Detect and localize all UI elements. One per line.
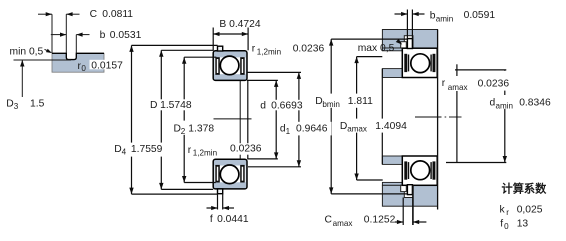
svg-text:1.811: 1.811 — [348, 96, 373, 107]
svg-text:0.1252: 0.1252 — [364, 215, 396, 226]
svg-text:0.0441: 0.0441 — [217, 214, 249, 225]
svg-text:C: C — [325, 214, 333, 225]
svg-text:f: f — [210, 214, 213, 225]
svg-text:0,025: 0,025 — [517, 205, 543, 216]
svg-text:0.0531: 0.0531 — [110, 30, 142, 41]
svg-text:1.378: 1.378 — [188, 123, 214, 134]
svg-text:0.0236: 0.0236 — [478, 78, 510, 89]
svg-text:1: 1 — [286, 127, 291, 136]
svg-text:b: b — [100, 30, 106, 41]
svg-text:0.9646: 0.9646 — [296, 123, 328, 134]
svg-text:D: D — [114, 144, 121, 155]
svg-text:0.0157: 0.0157 — [91, 60, 123, 71]
svg-text:0.8346: 0.8346 — [519, 97, 551, 108]
svg-text:1.4094: 1.4094 — [375, 121, 407, 132]
svg-text:1.5748: 1.5748 — [160, 100, 192, 111]
svg-text:k: k — [500, 205, 506, 216]
svg-text:0.6693: 0.6693 — [271, 100, 303, 111]
svg-text:B: B — [219, 19, 226, 30]
svg-text:1.5: 1.5 — [30, 99, 45, 110]
svg-text:0: 0 — [504, 222, 509, 231]
svg-text:amax: amax — [448, 83, 468, 92]
svg-text:2: 2 — [181, 127, 186, 136]
svg-text:r: r — [188, 145, 192, 156]
svg-text:1,2min: 1,2min — [257, 47, 281, 56]
svg-text:r: r — [252, 44, 256, 55]
svg-text:D: D — [150, 100, 157, 111]
svg-text:0.0811: 0.0811 — [102, 9, 133, 20]
svg-text:0.4724: 0.4724 — [229, 19, 261, 30]
svg-text:D: D — [6, 99, 13, 110]
svg-text:4: 4 — [122, 148, 127, 157]
svg-text:min 0,5: min 0,5 — [10, 46, 44, 57]
svg-text:0.0236: 0.0236 — [230, 144, 262, 155]
svg-text:amin: amin — [496, 102, 514, 111]
svg-text:amax: amax — [333, 219, 353, 228]
svg-text:0.0236: 0.0236 — [293, 43, 325, 54]
svg-text:0: 0 — [81, 64, 86, 73]
svg-text:r: r — [506, 208, 509, 217]
svg-text:C: C — [90, 9, 98, 20]
svg-text:3: 3 — [14, 102, 19, 111]
svg-text:amax: amax — [347, 124, 367, 133]
svg-text:13: 13 — [517, 219, 529, 230]
svg-text:d: d — [260, 100, 266, 111]
svg-text:bmin: bmin — [322, 100, 340, 109]
svg-text:f: f — [500, 219, 503, 230]
svg-text:计算系数: 计算系数 — [502, 181, 548, 195]
svg-text:r: r — [442, 78, 446, 89]
svg-text:max 0,5: max 0,5 — [358, 43, 395, 54]
svg-text:1.7559: 1.7559 — [131, 144, 163, 155]
svg-text:amin: amin — [436, 14, 454, 23]
svg-text:0.0591: 0.0591 — [464, 10, 496, 21]
svg-text:1,2min: 1,2min — [193, 149, 217, 158]
